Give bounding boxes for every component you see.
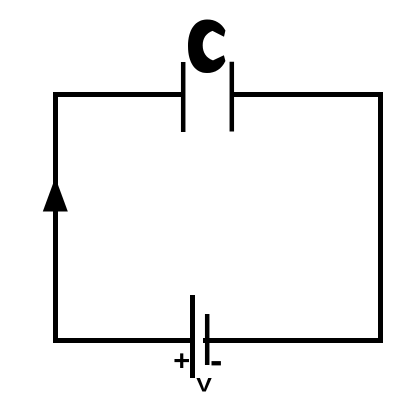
svg-text:V: V: [196, 374, 212, 396]
capacitor label C: [188, 20, 225, 74]
wire: top-right segment, right side, bottom-right segment (loop right half): [203, 95, 381, 341]
svg-text:+: +: [173, 346, 190, 378]
current direction arrow on left wire: [43, 178, 68, 212]
capacitor C right plate: [230, 62, 235, 132]
battery V negative (short) plate: [205, 314, 210, 365]
capacitor C left plate: [181, 62, 186, 132]
battery polarity label -: [212, 361, 221, 365]
battery V positive (long) plate: [190, 295, 195, 378]
wire: top-left segment, left side, bottom-left segment (loop left half): [56, 95, 193, 341]
